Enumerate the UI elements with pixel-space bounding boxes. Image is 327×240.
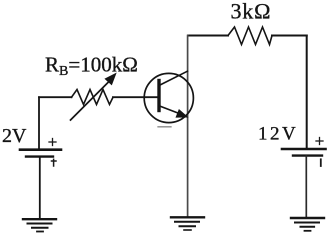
transistor Q1 base bar [157,81,160,111]
svg-text:2V: 2V [2,125,27,147]
battery B2 plus sign [316,138,323,145]
battery B2 minus tick [320,159,322,166]
battery B1 plus sign [49,139,56,146]
svg-text:RB=100kΩ: RB=100kΩ [45,53,138,80]
battery B1 2V plates [20,150,61,157]
ground (middle) [171,217,204,230]
resistor R 3k zigzag [228,27,272,45]
battery B1 minus tick [52,159,57,166]
svg-text:3kΩ: 3kΩ [231,0,272,24]
transistor Q1 body circle [144,73,193,122]
wire: collector riser (top rail to transistor / middle ground) [187,36,189,218]
transistor bottom scan smudge [158,126,171,128]
battery B2 12V plates [282,149,326,156]
transistor Q1 collector line [159,71,188,85]
wire: 2V battery to ground [39,157,41,219]
wire: base wire right segment [113,96,159,98]
svg-text:12V: 12V [258,124,298,145]
wire: top rail right segment [272,35,307,37]
wire: left riser [38,97,40,148]
ground (right) [291,218,324,231]
wire: base wire left segment [39,96,72,98]
arrow: RB wiper diagonal line [71,82,110,121]
arrow: RB wiper arrowhead [105,74,116,85]
wire: 12V battery to ground [305,156,307,218]
ground (left) [23,219,56,231]
transistor Q1 emitter line [159,106,184,116]
wire: right riser [306,36,308,149]
resistor RB variable zigzag [72,90,114,105]
transistor Q1 emitter arrowhead [176,110,187,117]
wire: top rail left segment [188,35,228,37]
